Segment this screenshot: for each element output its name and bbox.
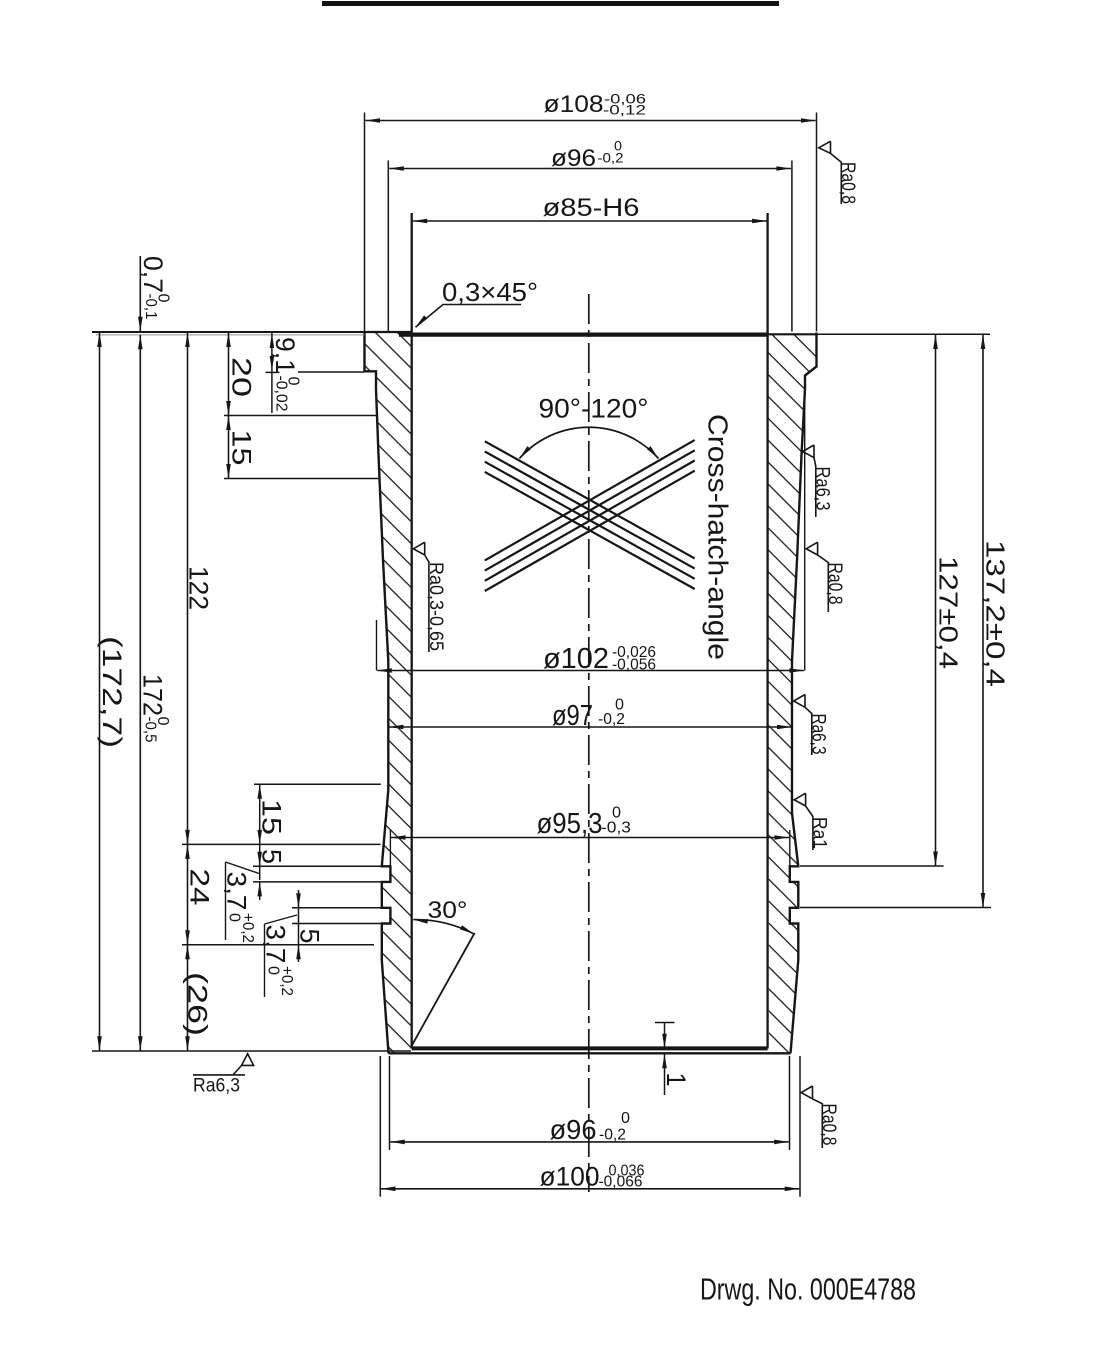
svg-text:0,3×45°: 0,3×45° <box>442 277 538 307</box>
svg-text:Ra0,3-0,65: Ra0,3-0,65 <box>425 562 446 651</box>
svg-text:-0,1: -0,1 <box>142 294 159 320</box>
svg-text:Ra6,3: Ra6,3 <box>193 1076 240 1097</box>
svg-text:-0,2: -0,2 <box>599 1127 626 1144</box>
svg-text:0: 0 <box>226 913 243 922</box>
svg-text:-0,2: -0,2 <box>598 150 624 166</box>
svg-text:15: 15 <box>227 430 257 466</box>
svg-text:0: 0 <box>621 1110 630 1127</box>
svg-text:172: 172 <box>138 674 168 716</box>
svg-text:0,7: 0,7 <box>138 256 168 293</box>
svg-text:ø96: ø96 <box>551 145 596 172</box>
svg-text:Ra6,3: Ra6,3 <box>812 467 833 511</box>
svg-text:ø95,3: ø95,3 <box>537 808 603 840</box>
svg-text:ø97: ø97 <box>552 700 593 732</box>
svg-text:1: 1 <box>661 1073 691 1087</box>
svg-text:5: 5 <box>295 929 325 944</box>
svg-text:Ra0,8: Ra0,8 <box>818 1104 839 1146</box>
svg-text:ø96: ø96 <box>550 1114 597 1145</box>
svg-text:(26): (26) <box>183 972 213 1036</box>
svg-text:-0,2: -0,2 <box>598 711 625 728</box>
svg-text:122: 122 <box>184 566 214 610</box>
svg-text:Drwg. No. 000E4788: Drwg. No. 000E4788 <box>700 1272 916 1307</box>
svg-text:5: 5 <box>257 849 287 864</box>
svg-text:-0,5: -0,5 <box>142 717 159 743</box>
svg-text:ø85-H6: ø85-H6 <box>543 194 640 222</box>
svg-text:0: 0 <box>265 966 282 975</box>
svg-text:-0,02: -0,02 <box>273 376 290 412</box>
svg-text:127±0,4: 127±0,4 <box>934 556 964 669</box>
svg-text:30°: 30° <box>428 897 468 924</box>
svg-text:Cross-hatch-angle: Cross-hatch-angle <box>703 414 734 660</box>
svg-text:-0,12: -0,12 <box>603 101 646 117</box>
svg-text:ø108: ø108 <box>544 91 604 118</box>
svg-text:Ra0,8: Ra0,8 <box>824 563 845 605</box>
svg-text:ø102: ø102 <box>543 643 609 675</box>
svg-text:ø100: ø100 <box>540 1162 600 1192</box>
svg-text:20: 20 <box>227 357 257 397</box>
svg-text:Ra0,8: Ra0,8 <box>837 162 858 204</box>
svg-text:-0,066: -0,066 <box>599 1174 643 1191</box>
svg-text:-0,056: -0,056 <box>612 657 656 674</box>
svg-text:90°-120°: 90°-120° <box>539 394 649 424</box>
svg-text:9,1: 9,1 <box>270 337 300 374</box>
svg-text:Ra1: Ra1 <box>809 817 830 849</box>
svg-text:(172,7): (172,7) <box>97 636 127 748</box>
svg-text:-0,3: -0,3 <box>601 820 631 837</box>
svg-text:137,2±0,4: 137,2±0,4 <box>981 540 1011 687</box>
svg-text:15: 15 <box>257 799 287 835</box>
svg-text:24: 24 <box>185 869 215 906</box>
svg-text:Ra6,3: Ra6,3 <box>808 714 829 755</box>
